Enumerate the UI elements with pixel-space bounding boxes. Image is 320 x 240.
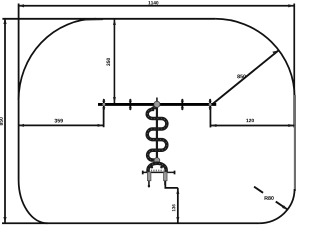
center joint circle — [154, 101, 160, 107]
diagonal dimension arrow — [272, 50, 278, 54]
359 right arrow — [98, 124, 104, 127]
crossbar left end cap — [142, 171, 144, 175]
seat arch tube — [148, 163, 166, 172]
top dimension right arrow — [288, 4, 294, 7]
120 text — [246, 119, 254, 122]
center stub above bar — [156, 98, 158, 103]
R80 leader arrow — [282, 205, 288, 210]
120 left arrow — [211, 124, 217, 127]
120 right arrow — [288, 124, 294, 127]
safety zone outline: right edge with extension — [293, 4, 295, 128]
extension line below right bar end — [209, 107, 211, 128]
arch inner dot right — [160, 166, 163, 169]
left gray post — [147, 172, 151, 181]
right gray post — [164, 172, 168, 181]
136 top arrow — [176, 188, 179, 194]
left foot blob — [148, 185, 150, 188]
vertical 350 bottom arrow — [113, 97, 116, 103]
step line from right post to 136 dimension — [165, 181, 178, 188]
diagonal dimension line to top-right corner — [213, 51, 278, 104]
thin crossbar — [143, 171, 175, 173]
bottom joint circle — [154, 158, 160, 164]
136 bottom arrow — [176, 217, 179, 223]
left foot rod — [148, 181, 150, 186]
bar tick post 2 — [129, 98, 132, 110]
center pole (vertical) — [156, 104, 158, 160]
spiral tube (serpentine) — [147, 107, 167, 160]
top edge arc-merge thickening — [85, 18, 103, 20]
359 left arrow — [18, 124, 24, 127]
dimension line 359 (left edge to bar end) — [18, 124, 104, 126]
diagonal dimension text 850 — [237, 75, 245, 79]
main horizontal bar — [98, 103, 216, 106]
safety zone outline: top-right corner arc — [215, 19, 295, 97]
136 text (rotated) — [172, 204, 175, 211]
left dimension top arrow — [3, 18, 6, 24]
crossbar right end cap — [174, 171, 176, 175]
left end tick of bar — [102, 98, 105, 110]
safety zone outline: top-left corner arc — [19, 19, 96, 100]
R80 text — [265, 196, 274, 200]
359 text — [54, 119, 62, 123]
left dimension text 850 (rotated, clipped at image edge) — [0, 117, 3, 125]
safety zone outline: bottom edge with extension — [2, 222, 259, 224]
vertical 350 text (rotated) — [107, 58, 111, 66]
safety zone outline: left edge with extension — [18, 4, 20, 181]
vertical dimension line 350 (top edge to bar) — [113, 19, 115, 103]
vertical 350 top arrow — [113, 19, 116, 25]
gray teeth row — [151, 169, 164, 171]
seat arch highlight specks — [148, 163, 166, 172]
top dimension line 1140 — [18, 5, 294, 7]
dimension line 120 (bar end to right edge) — [210, 125, 294, 127]
safety zone outline: top edge with extension — [2, 18, 215, 20]
left dimension bottom arrow — [3, 217, 6, 223]
right end tick of bar — [209, 98, 212, 110]
left dimension line 850 — [4, 18, 6, 223]
right foot rod — [164, 181, 166, 185]
spiral tube highlight specks — [147, 107, 167, 160]
bottom-right radius leader line R80 — [254, 187, 288, 210]
top dimension text 1140 — [148, 1, 158, 4]
arch inner dot left — [151, 166, 154, 169]
safety zone outline: bottom-left corner arc — [19, 180, 48, 223]
top dimension left arrow — [18, 4, 24, 7]
extension line below left bar end — [103, 108, 105, 128]
safety zone outline: right edge (gray, clipped at image border) — [294, 95, 296, 191]
bar tick post 4 — [181, 98, 184, 110]
safety zone outline: bottom-right corner arc — [259, 189, 295, 223]
dimension line 136 (step to bottom edge) — [177, 188, 179, 223]
